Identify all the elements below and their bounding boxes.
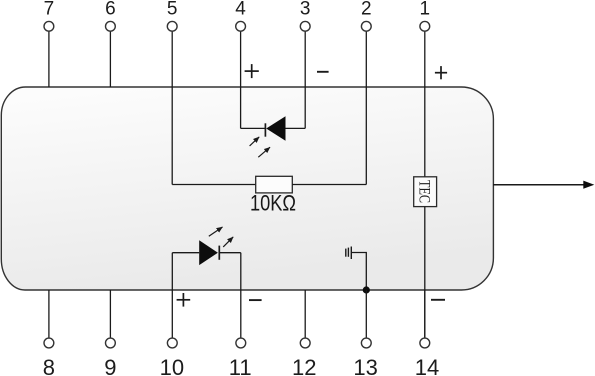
svg-text:13: 13 [353,355,377,376]
pin 2 lead wire into resistor node [365,31,367,184]
pin 9 terminal circle [106,338,116,348]
pin 6 lead wire [109,31,111,87]
pin 14 terminal circle [420,338,430,348]
minus sign at pin 3 [317,71,329,73]
svg-text:7: 7 [44,0,55,20]
wire pin10 to laser diode anode [172,252,199,254]
pin 12 lead wire [304,290,306,338]
output arrow head [583,181,594,189]
TEC body [414,177,437,207]
laser diode triangle [199,240,218,265]
plus sign at pin 4 [245,64,259,78]
pin 13 terminal circle [361,338,371,348]
svg-text:6: 6 [105,0,116,20]
pin 10 terminal circle [167,338,177,348]
thermistor bar 1 [345,249,347,257]
pin 2 terminal circle [361,21,371,31]
svg-text:9: 9 [104,355,116,376]
photodiode incident light ray 1 [250,137,260,146]
svg-text:12: 12 [292,355,316,376]
svg-text:3: 3 [300,0,311,20]
wire pin4 to photodiode cathode bar [241,127,266,129]
pin 11 terminal circle [236,338,246,348]
junction dot at pin 13 [363,286,370,293]
wire pin5 node to resistor left [172,184,256,186]
pin 10 lead wire from laser anode [171,253,173,338]
minus sign at pin 11 [249,299,262,301]
svg-text:10KΩ: 10KΩ [250,191,296,216]
pin 4 terminal circle [236,21,246,31]
plus sign at pin 1 [435,66,447,79]
svg-text:10: 10 [160,355,184,376]
package body outline [1,87,493,290]
laser emitted light ray 1 [209,227,223,236]
wire TEC bottom to pin 14 [424,207,426,338]
pin 14 lead wire [424,290,426,338]
wire photodiode anode to pin3 [286,127,306,129]
pin 3 lead wire to photodiode anode [304,31,306,128]
pin 3 terminal circle [300,21,310,31]
pin 1 lead wire to TEC top [424,31,426,177]
pin 12 terminal circle [300,338,310,348]
pin 4 lead wire to photodiode cathode [240,31,242,128]
pin 7 terminal circle [44,21,54,31]
pin 9 lead wire [109,290,111,338]
plus sign at pin 10 [177,293,191,307]
pin 11 lead wire from laser cathode [240,253,242,338]
thermistor bar 3 [350,247,352,260]
pin 8 terminal circle [44,338,54,348]
resistor 10KΩ body [256,176,293,193]
pin 1 terminal circle [420,21,430,31]
photodiode triangle [266,116,285,141]
pin 8 lead wire [48,290,50,338]
laser diode cathode bar [218,246,220,260]
thermistor bar 2 [347,248,349,257]
svg-text:1: 1 [420,0,431,20]
photodiode cathode bar [264,123,266,136]
output arrow line [493,184,584,186]
wire resistor right to pin2 node [292,184,366,186]
svg-text:4: 4 [235,0,246,20]
svg-text:11: 11 [229,355,252,376]
pin 5 terminal circle [167,21,177,31]
laser emitted light ray 2 [223,237,233,247]
svg-text:14: 14 [415,355,439,376]
minus sign at pin 14 [431,299,445,301]
svg-text:5: 5 [167,0,178,20]
pin 13 lead wire [365,290,367,338]
pin 6 terminal circle [106,21,116,31]
svg-text:8: 8 [43,355,55,376]
wire thermistor to pin13 branch [352,253,366,291]
svg-text:TEC: TEC [416,180,433,203]
photodiode incident light ray 2 [258,147,270,157]
svg-text:2: 2 [361,0,372,20]
pin 5 lead wire into resistor node [171,31,173,184]
wire laser diode cathode to pin11 [219,252,241,254]
pin 7 lead wire [48,31,50,87]
